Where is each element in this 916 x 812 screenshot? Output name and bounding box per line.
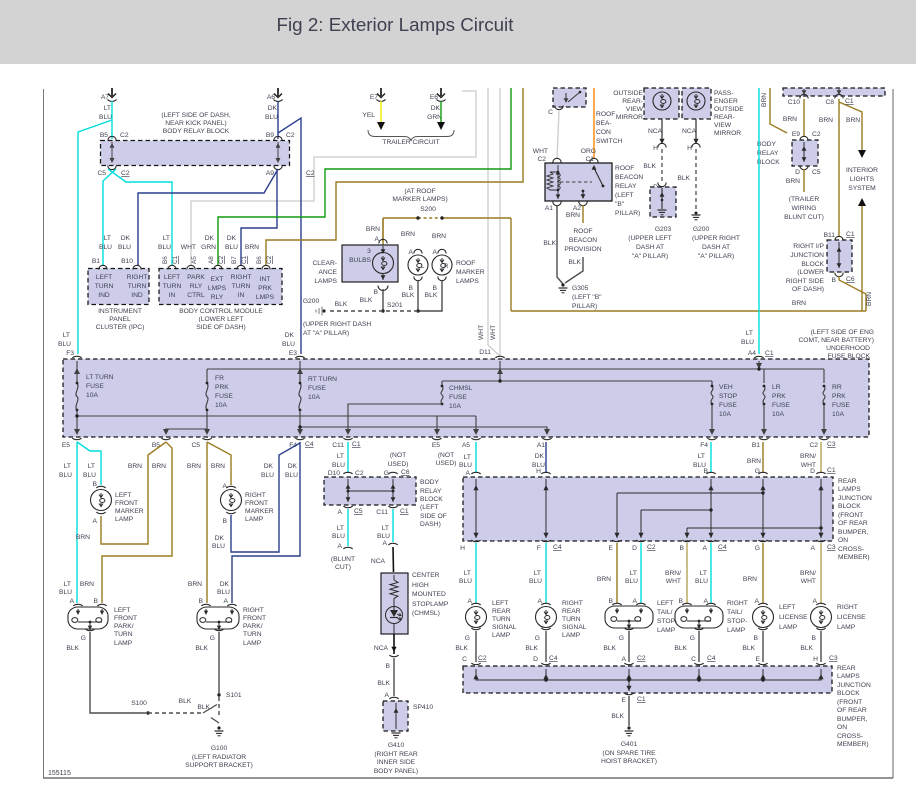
svg-text:E3: E3 (289, 350, 297, 357)
wire BRN to left license (762, 543, 764, 603)
svg-text:WHT: WHT (801, 578, 816, 585)
wire DK BLU A9 to BCM B7 (241, 169, 277, 266)
svg-text:DK: DK (215, 535, 225, 542)
svg-text:C2: C2 (647, 544, 656, 551)
svg-text:PROVISION: PROVISION (564, 246, 601, 253)
wire WHT roof beacon switch C to relay C2 (557, 111, 559, 159)
svg-text:ROOF: ROOF (573, 228, 592, 235)
svg-text:TURN: TURN (243, 631, 262, 638)
svg-text:C4: C4 (553, 544, 562, 551)
svg-text:B: B (433, 285, 438, 292)
svg-text:NCA: NCA (374, 645, 389, 652)
svg-text:D: D (632, 545, 637, 552)
svg-text:S200: S200 (420, 206, 436, 213)
svg-text:(TRAILER: (TRAILER (789, 196, 820, 203)
svg-text:PARK/: PARK/ (114, 623, 134, 630)
svg-text:BRN: BRN (597, 576, 611, 583)
roof beacon switch box (553, 88, 586, 107)
svg-text:LEFT: LEFT (96, 274, 112, 281)
svg-text:G410: G410 (388, 742, 405, 749)
svg-text:WHT: WHT (666, 578, 681, 585)
svg-text:LT: LT (163, 235, 170, 242)
svg-text:G: G (690, 635, 695, 642)
svg-text:BLK: BLK (800, 645, 813, 652)
svg-text:B7: B7 (231, 256, 238, 264)
svg-text:H: H (460, 545, 465, 552)
svg-text:(BLUNT: (BLUNT (331, 556, 355, 563)
svg-text:PRK: PRK (258, 285, 272, 292)
svg-text:E9: E9 (792, 131, 800, 138)
wire BLK right park/turn G to S101 (218, 632, 220, 695)
relay contact (560, 181, 592, 183)
svg-text:LAMP: LAMP (114, 640, 133, 647)
svg-text:B1: B1 (752, 442, 760, 449)
svg-text:RELAY: RELAY (420, 488, 442, 495)
wire BRN D to trailer wiring blunt cut (803, 169, 805, 192)
svg-text:C5: C5 (97, 170, 106, 177)
svg-text:BRN: BRN (76, 534, 90, 541)
wire BRN B5 to left park/turn B (102, 442, 172, 603)
svg-text:C3: C3 (827, 544, 836, 551)
svg-text:INNER SIDE: INNER SIDE (377, 759, 416, 766)
svg-text:REAR-: REAR- (714, 114, 735, 121)
svg-text:C1: C1 (827, 467, 836, 474)
svg-text:BRN: BRN (792, 300, 806, 307)
wire DK GRN E6 stub (440, 101, 442, 124)
svg-text:B9: B9 (266, 132, 274, 139)
G203 ground box (650, 187, 676, 217)
svg-text:B: B (832, 277, 837, 284)
svg-text:PRK: PRK (215, 384, 229, 391)
svg-text:C6: C6 (401, 469, 410, 476)
svg-text:IN: IN (169, 292, 176, 299)
wire DK BLU A1 to rear junction H (545, 442, 547, 473)
svg-text:10A: 10A (215, 402, 227, 409)
svg-text:OF REAR: OF REAR (838, 520, 868, 527)
svg-text:SUPPORT BRACKET): SUPPORT BRACKET) (185, 762, 253, 769)
svg-text:RELAY: RELAY (757, 150, 779, 157)
svg-text:B5: B5 (100, 132, 108, 139)
svg-text:CLEAR-: CLEAR- (312, 260, 337, 267)
svg-text:G: G (384, 470, 389, 477)
connector A7 cut-wire (111, 88, 113, 96)
svg-text:A: A (70, 598, 75, 605)
svg-text:VIEW: VIEW (626, 106, 644, 113)
wire LT BLU C11 to CHMSL A (392, 509, 394, 542)
svg-text:HIGH: HIGH (412, 582, 429, 589)
svg-text:S201: S201 (387, 302, 403, 309)
svg-text:(LOWER LEFT: (LOWER LEFT (199, 316, 244, 323)
svg-text:(LOWER: (LOWER (797, 269, 824, 276)
svg-text:SWITCH: SWITCH (596, 138, 623, 145)
svg-text:LEFT: LEFT (115, 492, 131, 499)
svg-text:E6: E6 (430, 94, 438, 101)
svg-text:BLOCK: BLOCK (420, 496, 443, 503)
fuse feeds inside block (77, 361, 824, 386)
svg-text:B11: B11 (824, 232, 836, 239)
svg-text:A8: A8 (208, 256, 215, 264)
svg-text:LAMP: LAMP (243, 640, 262, 647)
svg-text:BLU: BLU (83, 472, 96, 479)
svg-text:B: B (374, 289, 379, 296)
right I/P junction block (835, 236, 843, 240)
connector A6 cut-wire (277, 88, 279, 96)
svg-text:WHT: WHT (490, 325, 497, 340)
svg-text:STOPLAMP: STOPLAMP (412, 601, 449, 608)
page border left (43, 89, 45, 778)
svg-text:BLK: BLK (425, 292, 438, 299)
wire WHT D11 pair to top edge (488, 88, 500, 356)
title bar (0, 0, 916, 64)
svg-text:C4: C4 (549, 655, 558, 662)
svg-text:"B": "B" (615, 201, 625, 208)
svg-text:LAMPS: LAMPS (456, 278, 479, 285)
svg-text:BODY PANEL): BODY PANEL) (374, 768, 418, 775)
svg-text:E5: E5 (62, 442, 70, 449)
svg-text:(UPPER RIGHT DASH: (UPPER RIGHT DASH (303, 321, 371, 328)
left front marker lamp (96, 486, 105, 488)
wire BLK clearance lamps B to S201 (382, 289, 384, 311)
svg-text:RELAY: RELAY (615, 183, 637, 190)
svg-text:RIGHT: RIGHT (837, 604, 858, 611)
wire ORG from top to relay C1 (593, 88, 595, 159)
pin E C1 of lower junction (624, 693, 633, 695)
splice SP410 box (383, 701, 408, 731)
svg-text:A4: A4 (748, 350, 756, 357)
wire LT BLU A5 to rear junction A (475, 442, 477, 473)
svg-text:IND: IND (131, 292, 143, 299)
BCM pins (168, 265, 176, 269)
svg-text:F3: F3 (66, 350, 74, 357)
svg-text:BLU: BLU (158, 244, 171, 251)
svg-text:ORG: ORG (581, 148, 596, 155)
relay coil (547, 172, 558, 190)
svg-text:BRN: BRN (846, 117, 860, 124)
svg-text:10A: 10A (719, 411, 731, 418)
svg-text:BRN: BRN (747, 458, 761, 465)
svg-text:BUMPER,: BUMPER, (838, 529, 869, 536)
splice S101 (217, 693, 220, 696)
svg-text:ANCE: ANCE (318, 269, 337, 276)
svg-text:CUT): CUT) (335, 564, 351, 571)
svg-text:BLK: BLK (377, 680, 390, 687)
wire LT BLU to left rear turn lamp (475, 543, 477, 603)
svg-text:D: D (795, 169, 800, 176)
svg-text:LMPS: LMPS (208, 285, 227, 292)
svg-text:LT: LT (464, 570, 471, 577)
svg-text:LT: LT (698, 453, 705, 460)
svg-text:LT: LT (700, 570, 707, 577)
svg-text:FUSE: FUSE (449, 394, 467, 401)
svg-text:AT "A" PILLAR): AT "A" PILLAR) (303, 330, 349, 337)
svg-text:C2: C2 (809, 442, 818, 449)
svg-text:BEACON: BEACON (615, 174, 643, 181)
svg-text:FUSE: FUSE (772, 402, 790, 409)
svg-text:H: H (536, 468, 541, 475)
svg-text:C5: C5 (812, 169, 821, 176)
svg-text:BLK: BLK (179, 698, 192, 705)
svg-text:BODY: BODY (757, 141, 776, 148)
svg-text:C4: C4 (305, 441, 314, 448)
rear lamps junction block (upper) (463, 477, 833, 541)
svg-text:LEFT: LEFT (779, 604, 795, 611)
svg-text:C2: C2 (478, 655, 487, 662)
svg-text:BRN: BRN (245, 244, 259, 251)
svg-text:BODY RELAY BLOCK: BODY RELAY BLOCK (163, 128, 230, 135)
wire LT BLU C5 to IPC B1 (103, 169, 116, 266)
svg-text:BLK: BLK (603, 645, 616, 652)
svg-text:A: A (223, 483, 228, 490)
wire BRN C8 to B11 (838, 99, 840, 237)
body relay block (left side of dash) (324, 477, 416, 505)
wire LT BLU E5 to left park/turn A (76, 442, 78, 603)
svg-text:STOP: STOP (719, 393, 738, 400)
svg-text:BLK: BLK (742, 645, 755, 652)
wire BLK left park/turn G to S100 (90, 632, 146, 713)
svg-text:A: A (338, 543, 343, 550)
wire BLK dashed S101 to G100 (218, 697, 220, 716)
svg-text:TURN: TURN (562, 616, 581, 623)
body control module box (159, 269, 282, 305)
svg-text:G401: G401 (621, 741, 638, 748)
svg-text:SIDE OF DASH): SIDE OF DASH) (196, 324, 245, 331)
svg-text:C1: C1 (637, 696, 646, 703)
svg-text:C3: C3 (829, 655, 838, 662)
wire LT BLU E5 branch to left marker B (77, 442, 101, 485)
svg-text:LAMPS: LAMPS (314, 278, 337, 285)
passenger outside mirror box (682, 88, 711, 119)
wire mirror 2 to H (695, 119, 697, 144)
svg-text:(LEFT: (LEFT (420, 504, 439, 511)
underhood fuse block (63, 359, 869, 437)
svg-text:A5: A5 (191, 256, 198, 264)
svg-text:HOIST BRACKET): HOIST BRACKET) (601, 758, 657, 765)
wire BLK relay A1 to ground G305 (557, 205, 563, 284)
svg-text:OUTSIDE: OUTSIDE (714, 106, 744, 113)
svg-text:G203: G203 (655, 226, 672, 233)
svg-text:B10: B10 (121, 258, 133, 265)
svg-text:B: B (680, 545, 685, 552)
top right connector box (783, 88, 885, 96)
svg-text:RIGHT: RIGHT (127, 274, 148, 281)
svg-text:OF DASH): OF DASH) (792, 286, 824, 293)
svg-text:B6: B6 (256, 256, 263, 264)
outside rear-view mirror box (644, 88, 679, 119)
svg-text:A: A (466, 470, 471, 477)
svg-text:LT: LT (382, 525, 389, 532)
svg-text:BLUNT CUT): BLUNT CUT) (784, 214, 824, 221)
svg-text:BRN: BRN (783, 116, 797, 123)
svg-text:C1: C1 (765, 350, 774, 357)
svg-text:LAMP: LAMP (115, 516, 134, 523)
svg-text:C2: C2 (355, 470, 364, 477)
svg-text:NCA: NCA (371, 558, 386, 565)
svg-text:D11: D11 (479, 349, 491, 356)
svg-text:SIDE OF: SIDE OF (420, 513, 447, 520)
svg-text:NCA: NCA (682, 128, 697, 135)
svg-text:(CHMSL): (CHMSL) (412, 610, 440, 617)
wire BRN B5 to left marker A (101, 442, 166, 544)
wire CHMSL B to SP410 (393, 634, 395, 654)
svg-text:LT: LT (104, 235, 111, 242)
svg-text:CHMSL: CHMSL (449, 385, 473, 392)
wire BRN to left tail B (616, 543, 618, 603)
wire LT BLU A7 to B5 and branch to F3 (111, 101, 113, 139)
svg-text:BLU: BLU (225, 244, 238, 251)
svg-text:LT: LT (64, 463, 71, 470)
svg-text:FRONT: FRONT (115, 500, 138, 507)
ground G100 (217, 726, 220, 729)
svg-text:C2: C2 (120, 132, 129, 139)
svg-text:EXT: EXT (210, 276, 223, 283)
svg-text:TURN: TURN (114, 631, 133, 638)
svg-text:LEFT: LEFT (492, 600, 508, 607)
svg-text:G: G (210, 635, 215, 642)
svg-text:BRN: BRN (128, 463, 142, 470)
fuse VEH STOP 10A (711, 386, 713, 404)
svg-text:C11: C11 (376, 509, 388, 516)
svg-text:BLU: BLU (118, 244, 131, 251)
wire BLK to ground G401 (628, 696, 630, 726)
wire BLK left marker B to S201 (417, 280, 419, 311)
svg-text:BRN/: BRN/ (800, 453, 816, 460)
svg-text:LAMP: LAMP (779, 624, 798, 631)
svg-text:E: E (609, 545, 614, 552)
svg-text:LT: LT (88, 463, 95, 470)
svg-text:(AT ROOF: (AT ROOF (404, 188, 435, 195)
svg-text:TAIL/: TAIL/ (657, 609, 673, 616)
svg-text:MARKER: MARKER (115, 508, 144, 515)
wire BRN/WHT C2 to rear junction D (820, 442, 822, 473)
svg-text:BEA-: BEA- (596, 120, 612, 127)
svg-text:FRONT: FRONT (245, 500, 268, 507)
svg-text:DK: DK (268, 105, 278, 112)
svg-text:F4: F4 (700, 442, 708, 449)
svg-text:A5: A5 (462, 442, 470, 449)
svg-text:USED): USED) (436, 460, 457, 467)
svg-text:A7: A7 (101, 94, 109, 101)
svg-text:RIGHT SIDE: RIGHT SIDE (786, 278, 825, 285)
svg-text:SYSTEM: SYSTEM (848, 185, 876, 192)
svg-text:BLOCK: BLOCK (801, 261, 824, 268)
svg-text:JUNCTION: JUNCTION (790, 252, 824, 259)
svg-text:BRN: BRN (152, 463, 166, 470)
node C of switch (555, 106, 563, 110)
svg-text:A: A (811, 545, 816, 552)
svg-text:DASH AT: DASH AT (702, 244, 730, 251)
svg-text:PILLAR): PILLAR) (572, 303, 597, 310)
svg-text:155115: 155115 (48, 770, 71, 777)
fuse LR PRK 10A (763, 386, 765, 404)
svg-text:PILLAR): PILLAR) (615, 210, 640, 217)
svg-text:RIGHT: RIGHT (245, 492, 266, 499)
svg-text:A: A (338, 509, 343, 516)
svg-text:(UPPER LEFT: (UPPER LEFT (628, 235, 671, 242)
svg-text:BLK: BLK (568, 259, 581, 266)
svg-text:IN: IN (238, 292, 245, 299)
svg-text:LAMPS: LAMPS (838, 486, 861, 493)
svg-text:BLK: BLK (455, 645, 468, 652)
pin A4 C1 (754, 356, 763, 358)
svg-text:PRK: PRK (832, 393, 846, 400)
svg-text:REAR: REAR (838, 478, 857, 485)
svg-text:G100: G100 (211, 745, 228, 752)
svg-text:BRN: BRN (188, 581, 202, 588)
svg-text:FUSE: FUSE (719, 402, 737, 409)
svg-text:(FRONT: (FRONT (837, 699, 862, 706)
wire BRN/WHT to right license (820, 543, 822, 603)
svg-text:BLK: BLK (543, 240, 556, 247)
instrument panel cluster (IPC) box (88, 269, 149, 305)
svg-text:C2: C2 (537, 156, 546, 163)
svg-text:DK: DK (121, 235, 131, 242)
svg-text:H: H (653, 145, 658, 152)
svg-text:DK: DK (285, 332, 295, 339)
svg-text:C5: C5 (354, 508, 363, 515)
trailer circuit brace (368, 130, 454, 141)
svg-text:LAMP: LAMP (492, 632, 511, 639)
svg-text:RLY: RLY (211, 294, 224, 301)
rear park lamps BRN rail (511, 310, 866, 312)
svg-text:C2: C2 (306, 170, 315, 177)
wire NCA to CHMSL (392, 547, 395, 572)
svg-text:BLU: BLU (285, 472, 298, 479)
svg-text:LICENSE: LICENSE (837, 614, 866, 621)
wire BLK dashed H to G203 (661, 149, 663, 183)
splice S201 and ground G200 dashed (381, 309, 384, 312)
svg-text:WHT: WHT (181, 244, 196, 251)
svg-text:PANEL: PANEL (109, 316, 131, 323)
svg-text:LAMP: LAMP (837, 624, 856, 631)
svg-text:IND: IND (98, 292, 110, 299)
wire LT BLU to right rear turn lamp (545, 543, 547, 603)
svg-text:RIGHT I/P: RIGHT I/P (793, 243, 824, 250)
svg-text:(LEFT SIDE OF DASH,: (LEFT SIDE OF DASH, (161, 112, 231, 119)
ground G200 symbol (322, 309, 325, 312)
svg-text:MARKER LAMPS): MARKER LAMPS) (392, 196, 447, 203)
svg-text:BLOCK: BLOCK (837, 690, 860, 697)
connector E7 cut-wire (380, 88, 382, 96)
svg-text:TRAILER CIRCUIT: TRAILER CIRCUIT (382, 139, 439, 146)
svg-text:RLY: RLY (190, 283, 203, 290)
svg-text:MOUNTED: MOUNTED (412, 591, 446, 598)
svg-text:BRN/: BRN/ (800, 570, 816, 577)
wire BLK right marker B to S201 (418, 280, 442, 311)
svg-text:BRN: BRN (566, 212, 580, 219)
wire DK GRN to BCM A8 (218, 88, 511, 266)
svg-text:ENGER: ENGER (714, 98, 738, 105)
svg-text:BRN: BRN (786, 178, 800, 185)
svg-text:A: A (433, 249, 438, 256)
svg-text:ROOF: ROOF (456, 260, 475, 267)
fuse RT TURN 10A (299, 383, 301, 410)
svg-text:C2: C2 (812, 131, 821, 138)
svg-text:S101: S101 (226, 692, 242, 699)
wire DK BLU right marker B to F4 (231, 443, 300, 552)
svg-text:BRN: BRN (187, 463, 201, 470)
svg-text:STOP-: STOP- (727, 618, 747, 625)
svg-text:TURN: TURN (232, 283, 251, 290)
wire BRN C10 to E9 (803, 99, 805, 137)
page border bottom (43, 777, 893, 779)
svg-text:C: C (691, 656, 696, 663)
svg-text:MEMBER): MEMBER) (837, 741, 869, 748)
svg-text:DK: DK (264, 463, 274, 470)
svg-text:C: C (462, 656, 467, 663)
svg-text:RIGHT: RIGHT (727, 600, 748, 607)
svg-text:R: R (444, 264, 449, 270)
svg-text:C3: C3 (827, 441, 836, 448)
